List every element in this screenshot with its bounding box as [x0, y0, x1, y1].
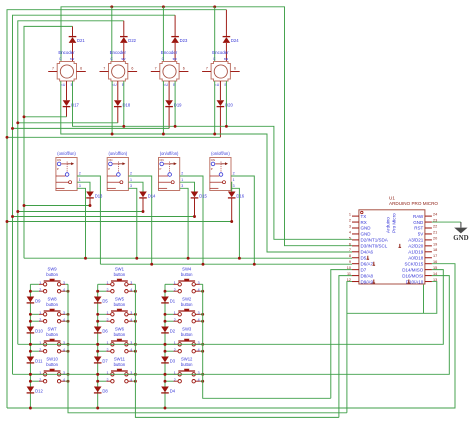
op-amp U1 ARDUINO PRO MICRO body	[359, 210, 425, 284]
wire SW9 pin2	[30, 290, 39, 292]
wire SW4 pin3	[200, 283, 203, 285]
svg-text:6: 6	[80, 67, 82, 71]
svg-text:(on/off/on): (on/off/on)	[57, 151, 76, 156]
svg-text:ON: ON	[160, 158, 164, 162]
wire SW3 pin2	[165, 350, 174, 352]
U1 pin 17 A0/D18	[425, 257, 432, 259]
diode D23	[171, 37, 179, 43]
wire SW12 pin1	[165, 373, 174, 375]
wire row-a bus top	[24, 26, 73, 258]
svg-text:2: 2	[79, 172, 81, 176]
svg-text:3: 3	[349, 224, 351, 228]
junction enc3 common	[162, 5, 165, 8]
push button SW6	[111, 339, 128, 353]
wire SW8 pin3	[65, 313, 68, 315]
svg-text:sw: sw	[121, 57, 126, 61]
svg-text:GND: GND	[453, 235, 468, 242]
U1 pin 5 D2/INT1/SDA	[352, 239, 359, 241]
push button SW8	[43, 309, 60, 323]
wire button column 2 right chain to D8/A8	[135, 284, 339, 417]
svg-text:A1/D19: A1/D19	[408, 250, 424, 255]
svg-text:D4: D4	[170, 389, 176, 394]
wire enc channel B drop	[123, 81, 125, 126]
svg-text:D7: D7	[102, 359, 108, 364]
svg-text:SW11: SW11	[114, 356, 126, 361]
U1 pin 15 D14/MISO	[425, 269, 432, 271]
wire D13 bottom lead	[89, 198, 91, 205]
wire SW4 pin2	[165, 290, 174, 292]
toggle switch S2	[107, 158, 128, 191]
svg-text:17: 17	[433, 254, 437, 258]
wire row-c bus top	[13, 15, 176, 374]
wire SW11 pin2	[98, 380, 107, 382]
svg-text:SW12: SW12	[181, 356, 193, 361]
wire SW6 pin1	[98, 343, 107, 345]
svg-text:6: 6	[234, 67, 236, 71]
wire row-d to D20	[7, 136, 220, 138]
diode D24	[223, 37, 231, 43]
svg-text:button: button	[114, 272, 126, 277]
wire SW4 pin4	[200, 290, 203, 292]
svg-text:TX: TX	[361, 214, 367, 219]
svg-text:6: 6	[349, 242, 351, 246]
diode D1	[161, 297, 169, 303]
wire switch pin3 bus to D5	[24, 257, 352, 259]
svg-text:3: 3	[233, 184, 235, 188]
svg-text:Pro Micro: Pro Micro	[392, 213, 397, 233]
svg-text:RST: RST	[414, 226, 423, 231]
svg-text:SW5: SW5	[115, 296, 125, 301]
diode D20	[217, 100, 225, 106]
wire SW3 pin1	[165, 343, 174, 345]
U1 pin 23 GND	[425, 221, 432, 223]
wire D24 top lead	[225, 10, 227, 37]
svg-text:P: P	[108, 167, 110, 171]
U1 pin 21 5V	[425, 233, 432, 235]
svg-text:sw: sw	[173, 57, 178, 61]
wire D17 bottom lead	[66, 107, 68, 117]
wire SW6 pin4	[133, 350, 136, 352]
svg-text:3: 3	[130, 184, 132, 188]
svg-text:D6: D6	[102, 329, 108, 334]
svg-text:19: 19	[433, 242, 437, 246]
svg-text:D5: D5	[102, 299, 108, 304]
svg-text:5: 5	[349, 236, 351, 240]
wire button column 3 diode chain	[164, 284, 166, 408]
diode D9	[27, 297, 35, 303]
wire enc4 common drop	[214, 7, 216, 62]
svg-text:D2/INT1/SDA: D2/INT1/SDA	[361, 238, 388, 243]
wire SW9 pin1	[30, 283, 39, 285]
wire SW12 pin4	[200, 380, 203, 382]
svg-text:D6/A7: D6/A7	[361, 261, 374, 266]
wire S1 pin1	[77, 182, 90, 191]
diode D8	[94, 387, 102, 393]
svg-text:GND: GND	[361, 232, 372, 237]
wire switch pin2 bus to D6/A7	[100, 263, 352, 265]
svg-text:4: 4	[349, 230, 351, 234]
svg-text:1: 1	[181, 178, 183, 182]
svg-text:2: 2	[233, 172, 235, 176]
push button SW10	[43, 369, 60, 383]
svg-text:SW2: SW2	[182, 296, 192, 301]
rotary encoder ENC1	[57, 62, 76, 82]
svg-text:SW9: SW9	[48, 266, 58, 271]
diode D17	[63, 100, 71, 106]
svg-text:D8/A8: D8/A8	[361, 273, 374, 278]
wire SW6 pin3	[133, 343, 136, 345]
svg-text:D24: D24	[231, 38, 239, 43]
wire row-c to D15	[13, 216, 195, 218]
wire under U1 stub	[423, 285, 425, 314]
svg-text:1: 1	[79, 178, 81, 182]
svg-text:A0/D18: A0/D18	[408, 255, 424, 260]
svg-text:21: 21	[433, 230, 437, 234]
svg-text:D16: D16	[236, 194, 244, 199]
wire D23 top lead	[174, 15, 176, 36]
ground GND symbol	[460, 222, 462, 228]
wire SW7 pin1	[30, 343, 39, 345]
wire SW3 pin4	[200, 350, 203, 352]
svg-text:<U: <U	[112, 83, 117, 87]
svg-text:5V: 5V	[418, 232, 424, 237]
svg-text:D13: D13	[95, 194, 103, 199]
diode D18	[114, 100, 122, 106]
wire SW8 pin2	[30, 320, 39, 322]
wire SW8 pin4	[65, 320, 68, 322]
svg-text:Encoder: Encoder	[212, 50, 229, 55]
wire SW2 pin3	[200, 313, 203, 315]
svg-text:1: 1	[349, 213, 351, 217]
rotary encoder ENC2	[109, 62, 128, 82]
wire SW6 pin2	[98, 350, 107, 352]
push button SW5	[111, 309, 128, 323]
diode D21	[69, 37, 77, 43]
wire D8/A8 column	[339, 276, 352, 418]
svg-text:A3/D21: A3/D21	[408, 238, 424, 243]
wire SW9 pin3	[65, 283, 68, 285]
wire SW2 pin1	[165, 313, 174, 315]
diode D11	[27, 357, 35, 363]
svg-text:SW6: SW6	[115, 326, 125, 331]
diode D2	[161, 327, 169, 333]
wire D20 bottom lead	[219, 107, 221, 138]
svg-text:button: button	[181, 332, 193, 337]
encoder ENC2 pin 6 (right)	[128, 71, 137, 73]
wire row-c to D19	[13, 127, 170, 129]
U1 pin 1 TX	[352, 215, 359, 217]
wire button row4 net to D14/MISO	[13, 276, 450, 375]
svg-text:(on/off/on): (on/off/on)	[109, 151, 128, 156]
wire SW10 pin2	[30, 380, 39, 382]
wire SW10 pin4	[65, 380, 68, 382]
svg-text:button: button	[181, 272, 193, 277]
wire SW7 pin4	[65, 350, 68, 352]
U1 pin 6 D3/INT0/SCL	[352, 245, 359, 247]
wire D18 bottom lead	[117, 107, 119, 123]
svg-text:button: button	[114, 332, 126, 337]
U1 pin 3 GND	[352, 227, 359, 229]
svg-text:SW4: SW4	[182, 266, 192, 271]
wire button column 2 diode chain	[97, 284, 99, 408]
wire enc channel B drop	[225, 81, 227, 126]
wire enc channel A drop	[162, 81, 164, 134]
U1 pin 13 D10/A10	[425, 281, 432, 283]
svg-text:20: 20	[433, 236, 437, 240]
wire SW10 pin3	[65, 373, 68, 375]
svg-text:7: 7	[155, 67, 157, 71]
wire SW10 pin1	[30, 373, 39, 375]
wire S2 pin1	[128, 182, 143, 191]
wire enc2 common drop	[111, 7, 113, 62]
wire S1 pin2	[77, 176, 100, 264]
wire under U1 route from D10/A10	[347, 282, 437, 314]
svg-text:D21: D21	[77, 38, 85, 43]
U1 pin 24 RAW	[425, 215, 432, 217]
svg-text:RAW: RAW	[413, 214, 424, 219]
svg-text:7: 7	[349, 248, 351, 252]
wire S3 pin1	[180, 182, 195, 191]
svg-text:U1: U1	[389, 196, 395, 201]
push button SW9	[43, 279, 60, 293]
wire SW5 pin4	[133, 320, 136, 322]
wire SW5 pin1	[98, 313, 107, 315]
svg-text:D15: D15	[199, 194, 207, 199]
push button SW2	[178, 309, 195, 323]
diode D7	[94, 357, 102, 363]
svg-text:1: 1	[233, 178, 235, 182]
U1 pin 14 D16/MOSI	[425, 275, 432, 277]
wire enc channel A drop	[111, 81, 113, 134]
push button SW1	[111, 279, 128, 293]
encoder ENC1 pin 6 (right)	[77, 71, 86, 73]
wire SW3 pin3	[200, 343, 203, 345]
wire SW1 pin2	[98, 290, 107, 292]
encoder ENC4 pin 6 (right)	[230, 71, 239, 73]
wire SW11 pin4	[133, 380, 136, 382]
wire encoder ENC2 switch pin lead	[117, 81, 119, 100]
encoder ENC2 pin 7 (left)	[100, 71, 109, 73]
wire SW8 pin1	[30, 313, 39, 315]
diode D12	[27, 387, 35, 393]
junction enc2 common	[110, 5, 113, 8]
svg-text:D16/MOSI: D16/MOSI	[402, 273, 423, 278]
svg-text:9: 9	[349, 260, 351, 264]
diode D5	[94, 297, 102, 303]
svg-text:button: button	[114, 362, 126, 367]
svg-text:D12: D12	[35, 389, 43, 394]
push button SW12	[178, 369, 195, 383]
wire D9/A9 column	[347, 282, 352, 413]
svg-text:7: 7	[52, 67, 54, 71]
diode D13	[86, 192, 94, 198]
wire D21 top lead	[72, 26, 74, 36]
svg-text:D2: D2	[170, 329, 176, 334]
wire D16 bottom lead	[231, 198, 233, 221]
diode D14	[139, 192, 147, 198]
svg-text:2: 2	[130, 172, 132, 176]
wire button column 1 diode chain	[29, 284, 31, 408]
svg-text:22: 22	[433, 224, 437, 228]
wire column diode line to SCK/D15	[7, 264, 455, 408]
wire S4 pin2	[231, 176, 254, 264]
wire row-d to D16	[7, 221, 232, 223]
U1 pin 11 D8/A8	[352, 275, 359, 277]
svg-text:<U: <U	[215, 83, 220, 87]
svg-text:2: 2	[181, 172, 183, 176]
wire button row3 net to D16/MOSI	[18, 270, 444, 345]
wire S2 pin2	[128, 176, 151, 264]
rotary encoder ENC3	[160, 62, 179, 82]
U1 pin 20 A3/D21	[425, 239, 432, 241]
wire SW11 pin3	[133, 373, 136, 375]
encoder ENC1 pin 7 (left)	[48, 71, 57, 73]
diode D15	[191, 192, 199, 198]
toggle switch S3	[159, 158, 180, 191]
svg-text:(on/off/on): (on/off/on)	[211, 151, 230, 156]
wire enc channel B drop	[174, 81, 176, 126]
svg-text:A2/D20: A2/D20	[408, 244, 424, 249]
svg-text:P: P	[57, 167, 59, 171]
wire button column 1 right chain to D9/A9	[68, 284, 347, 413]
U1 pin 16 SCK/D15	[425, 263, 432, 265]
wire D14 bottom lead	[142, 198, 144, 211]
svg-text:RX: RX	[361, 220, 367, 225]
wire row-b to D18	[18, 122, 118, 124]
svg-text:6: 6	[131, 67, 133, 71]
push button SW7	[43, 339, 60, 353]
encoder ENC4 pin 7 (left)	[202, 71, 211, 73]
svg-text:18: 18	[433, 248, 437, 252]
svg-text:D14: D14	[148, 194, 156, 199]
wire SW9 pin4	[65, 290, 68, 292]
svg-text:<U: <U	[163, 83, 168, 87]
encoder ENC3 pin 6 (right)	[179, 71, 188, 73]
wire encoder ENC1 switch pin lead	[66, 81, 68, 100]
svg-text:button: button	[114, 302, 126, 307]
wire SW12 pin2	[165, 380, 174, 382]
svg-text:SCK/D15: SCK/D15	[405, 261, 424, 266]
diode D6	[94, 327, 102, 333]
svg-text:1: 1	[130, 178, 132, 182]
svg-text:D11: D11	[35, 359, 43, 364]
U1 pin 22 RST	[425, 227, 432, 229]
svg-text:ON: ON	[211, 158, 215, 162]
svg-text:D4/A6: D4/A6	[361, 250, 374, 255]
U1 pin 7 D4/A6	[352, 251, 359, 253]
svg-text:button: button	[46, 332, 58, 337]
svg-text:D23: D23	[180, 38, 188, 43]
wire encoder common top bus y7	[61, 7, 352, 246]
rotary encoder ENC4	[211, 62, 230, 82]
wire SW7 pin2	[30, 350, 39, 352]
svg-text:sw: sw	[224, 57, 229, 61]
wire SW1 pin4	[133, 290, 136, 292]
wire D24 to encoder pin	[225, 43, 227, 62]
svg-text:Encoder: Encoder	[58, 50, 75, 55]
wire D21 to encoder pin	[72, 43, 74, 62]
svg-text:D8: D8	[102, 389, 108, 394]
U1 pin 8 D5	[352, 257, 359, 259]
wire SW5 pin2	[98, 320, 107, 322]
svg-text:2: 2	[349, 218, 351, 222]
wire encoder ENC4 switch pin lead	[219, 81, 221, 100]
svg-text:8: 8	[349, 254, 351, 258]
svg-text:button: button	[181, 302, 193, 307]
svg-text:button: button	[46, 272, 58, 277]
svg-text:6: 6	[183, 67, 185, 71]
wire S4 pin1	[230, 182, 233, 191]
svg-text:button: button	[46, 302, 58, 307]
wire D19 bottom lead	[168, 107, 170, 129]
push button SW4	[178, 279, 195, 293]
svg-text:D9: D9	[35, 299, 41, 304]
wire enc3 common drop	[162, 7, 164, 62]
wire D7 column	[331, 270, 352, 399]
svg-text:GND: GND	[361, 226, 372, 231]
svg-text:ARDUINO PRO MICRO: ARDUINO PRO MICRO	[389, 201, 438, 206]
wire encoder channel A bus	[61, 81, 352, 252]
svg-text:3: 3	[181, 184, 183, 188]
svg-text:sw: sw	[70, 57, 75, 61]
wire SW12 pin3	[200, 373, 203, 375]
wire U1 GND to ground	[432, 221, 461, 223]
svg-text:D14/MISO: D14/MISO	[402, 267, 424, 272]
svg-text:SW8: SW8	[48, 296, 58, 301]
svg-text:<U: <U	[61, 83, 66, 87]
wire enc channel A drop	[214, 81, 216, 134]
wire S4 pin3	[231, 188, 239, 258]
svg-text:P: P	[211, 167, 213, 171]
wire row-b bus top	[18, 21, 124, 345]
svg-text:Encoder: Encoder	[110, 50, 127, 55]
U1 NC marks	[399, 244, 402, 248]
svg-text:D1: D1	[170, 299, 176, 304]
wire SW1 pin3	[133, 283, 136, 285]
wire row-d bus top	[7, 10, 226, 408]
svg-text:D9/A9: D9/A9	[361, 279, 374, 284]
wire S3 pin3	[180, 188, 188, 258]
svg-text:(on/off/on): (on/off/on)	[160, 151, 179, 156]
push button SW11	[111, 369, 128, 383]
wire SW7 pin3	[65, 343, 68, 345]
svg-text:D3/INT0/SCL: D3/INT0/SCL	[361, 244, 388, 249]
diode D4	[161, 387, 169, 393]
wire S3 pin2	[180, 176, 203, 264]
svg-text:SW1: SW1	[115, 266, 125, 271]
diode D3	[161, 357, 169, 363]
svg-text:D7: D7	[361, 267, 367, 272]
wire D23 to encoder pin	[174, 43, 176, 62]
diode D22	[120, 37, 128, 43]
svg-text:D5: D5	[361, 255, 367, 260]
svg-text:3: 3	[79, 184, 81, 188]
svg-text:D10: D10	[35, 329, 43, 334]
svg-text:Encoder: Encoder	[161, 50, 178, 55]
wire row-a to D17	[24, 116, 67, 118]
wire button column 3 right chain to D7	[203, 284, 331, 398]
wire SW2 pin4	[200, 320, 203, 322]
wire D22 to encoder pin	[123, 43, 125, 62]
junction enc4 common	[213, 5, 216, 8]
svg-text:button: button	[46, 362, 58, 367]
toggle switch S1	[56, 158, 77, 191]
wire SW2 pin2	[165, 320, 174, 322]
wire row-b to D14	[18, 211, 143, 213]
push button SW3	[178, 339, 195, 353]
svg-text:SW3: SW3	[182, 326, 192, 331]
wire SW1 pin1	[98, 283, 107, 285]
